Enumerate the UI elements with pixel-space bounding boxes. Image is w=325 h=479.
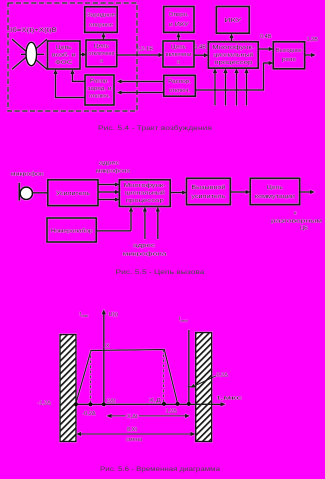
svg-text:Распр.: Распр. — [90, 79, 109, 85]
svg-text:Вызывной: Вызывной — [191, 184, 225, 191]
box M: Цепь коммутации — [250, 178, 299, 204]
svg-text:Х,Δt: Х,Δt — [127, 414, 138, 420]
svg-text:микрофон: микрофон — [11, 172, 44, 178]
svg-text:0,2Δ: 0,2Δ — [217, 373, 229, 379]
wire A to B — [80, 54, 83, 56]
svg-text:я: я — [177, 60, 180, 66]
svg-text:циональный: циональный — [213, 52, 253, 59]
box K: Многофункциональный процессор — [119, 180, 170, 207]
svg-text:адрес: адрес — [99, 161, 119, 167]
svg-text:возб. и: возб. и — [52, 53, 76, 59]
wire M out — [300, 190, 315, 195]
microphone symbol — [18, 183, 20, 201]
svg-text:Цепь: Цепь — [171, 45, 186, 51]
axis dots — [74, 402, 191, 407]
svg-text:я: я — [100, 59, 103, 65]
svg-text:0,4В: 0,4В — [260, 34, 272, 40]
svg-text:смена: смена — [126, 437, 143, 443]
svg-text:ФОС: ФОС — [55, 60, 72, 66]
dimension arrow 1 — [107, 409, 191, 420]
wire K to L — [170, 190, 187, 195]
wire 2M to 2L (upper) — [121, 81, 164, 83]
svg-text:отключ.: отключ. — [89, 94, 110, 100]
svg-text:Усилитель: Усилитель — [56, 191, 90, 197]
dangling wire 2 under G — [223, 68, 228, 105]
wire 2M to H — [195, 63, 270, 90]
wire C up to E — [178, 36, 180, 41]
svg-text:и ИКУ: и ИКУ — [169, 22, 190, 28]
svg-text:1,2В: 1,2В — [307, 37, 319, 43]
svg-text:ЦБ: ЦБ — [300, 226, 308, 232]
svg-text:Распор.: Распор. — [168, 79, 191, 85]
svg-text:заряд. и: заряд. и — [88, 86, 112, 92]
dimension arrow 2 — [76, 427, 195, 443]
wire G up to F — [231, 37, 233, 42]
svg-text:адрес: адрес — [133, 243, 155, 249]
svg-text:Многофунк-: Многофунк- — [212, 45, 254, 51]
box J: Номеронабор — [47, 218, 96, 242]
svg-text:Цепь: Цепь — [56, 45, 72, 51]
wire mic to I — [33, 192, 48, 194]
vertical axis — [103, 313, 105, 405]
box B: Цепь отключения — [86, 40, 117, 67]
horizontal axis — [76, 403, 222, 405]
svg-text:реле: реле — [282, 57, 296, 63]
svg-text:1,4В: 1,4В — [195, 45, 207, 51]
svg-text:Рис. 5.4 - Тракт возбуждения: Рис. 5.4 - Тракт возбуждения — [98, 124, 213, 132]
svg-text:Рис. 5.5 - Цепь вызова: Рис. 5.5 - Цепь вызова — [116, 269, 205, 276]
trapezoid pulse — [76, 350, 178, 405]
svg-text:опорное: опорное — [89, 23, 113, 29]
svg-text:ИКУ: ИКУ — [224, 18, 242, 24]
wire J to vertical 1 — [96, 230, 131, 232]
svg-text:Номеронабор: Номеронабор — [51, 229, 93, 235]
wire G to H — [258, 48, 270, 50]
box G: Многофункциональный процессор — [208, 42, 258, 68]
thin boundary line — [188, 330, 190, 404]
wire 2M to 2L (lower) — [121, 92, 164, 94]
wire K down 1 — [129, 207, 134, 231]
svg-text:t,мкс: t,мкс — [217, 396, 242, 402]
mixer ellipse — [26, 42, 37, 65]
mixer X lines — [12, 39, 47, 69]
svg-text:Х,Д: Х,Д — [149, 398, 161, 404]
wires I to K (3 arrows) — [98, 182, 120, 187]
svg-text:-1,2Δ: -1,2Δ — [38, 401, 52, 407]
svg-text:8,Хt: 8,Хt — [127, 427, 137, 433]
wire B up to D — [103, 36, 105, 40]
svg-text:усилитель: усилитель — [191, 194, 225, 200]
svg-text:-0,2Δ: -0,2Δ — [82, 411, 96, 417]
svg-text:Зарядное: Зарядное — [87, 13, 115, 19]
svg-text:Многофунк-: Многофунк- — [124, 183, 166, 189]
svg-text:Опорн.: Опорн. — [169, 12, 189, 18]
svg-text:Цепь: Цепь — [267, 185, 283, 191]
dangling wire 4 under G — [244, 68, 249, 105]
wire K down 3 — [156, 207, 161, 239]
dashed enclosure — [8, 3, 137, 111]
wire K down 2 — [143, 207, 148, 239]
svg-text:Iб=Х(t)+Х(t)В: Iб=Х(t)+Х(t)В — [10, 26, 57, 34]
svg-text:2Δt: 2Δt — [107, 398, 116, 404]
svg-text:Рис. 5.6 - Временная диаграмма: Рис. 5.6 - Временная диаграмма — [100, 466, 220, 473]
svg-text:циональный: циональный — [125, 190, 165, 197]
dashed drop line left — [90, 351, 92, 405]
svg-text:микрофона: микрофона — [96, 169, 130, 175]
wire 2L to A (inner) — [72, 73, 85, 82]
box I: Усилитель — [48, 180, 98, 206]
svg-text:Выходное: Выходное — [276, 48, 302, 54]
dangling wire 3 under G — [234, 68, 239, 105]
wire B to C — [117, 54, 160, 56]
svg-text:отключ.: отключ. — [169, 88, 190, 94]
svg-text:0,2·1В: 0,2·1В — [137, 47, 154, 53]
dangling wire 1 under G — [213, 68, 218, 105]
tick on boundary line — [188, 386, 196, 388]
box D: Зарядное опорное — [85, 7, 118, 33]
svg-text:Цепь: Цепь — [94, 44, 109, 50]
wire L to M — [230, 190, 250, 195]
svg-text:U(t): U(t) — [109, 312, 118, 318]
svg-text:1,2Δ: 1,2Δ — [166, 409, 178, 415]
box H: Выходное реле — [273, 42, 304, 69]
box C: Цепь включения — [163, 41, 194, 67]
box L: Вызывной усилитель — [187, 178, 231, 204]
svg-text:X: X — [106, 344, 110, 350]
svg-text:процессор: процессор — [126, 198, 164, 204]
svg-text:отключени: отключени — [88, 51, 114, 57]
box E: Опорн. и ИКУ — [164, 7, 194, 33]
right hatched wall — [196, 333, 212, 442]
wire C to G — [194, 54, 205, 56]
svg-text:включени: включени — [166, 52, 192, 58]
svg-text:разговорным: разговорным — [271, 219, 322, 225]
box 2L: Распред. заряд. и отключ. — [85, 75, 114, 105]
box 2M: Распред. отключ. — [164, 75, 196, 96]
svg-text:микрофона: микрофона — [123, 252, 167, 258]
wire H out — [305, 54, 312, 56]
svg-text:процессор: процессор — [214, 60, 252, 66]
box F: ИКУ — [216, 7, 249, 34]
dashed drop line right — [163, 350, 165, 404]
box A: Цепь возб. и ФОС — [48, 41, 81, 69]
left hatched wall — [60, 335, 76, 442]
svg-text:коммутации: коммутации — [255, 194, 295, 200]
wire 2L to A (outer) — [56, 73, 86, 98]
